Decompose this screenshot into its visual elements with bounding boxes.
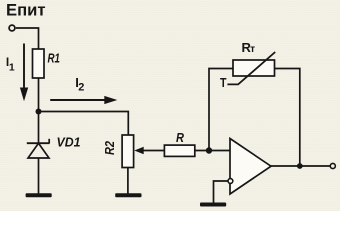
svg-text:т: т: [250, 44, 255, 55]
node A junction: [36, 109, 42, 115]
resistor R1: [33, 49, 45, 78]
terminal Епит input: [9, 25, 15, 31]
resistor R: [164, 145, 194, 156]
wire R1 bottom to node A and down to VD1: [38, 78, 40, 143]
wiper arrow into R2: [134, 147, 165, 154]
svg-text:2: 2: [78, 82, 84, 94]
node C junction on output: [297, 163, 303, 169]
svg-text:T: T: [220, 76, 227, 90]
label I2: [75, 75, 84, 94]
thermistor Rт: [227, 52, 275, 84]
wire R to op-amp input: [195, 150, 230, 152]
wire VD1 to ground: [38, 158, 40, 194]
wire op-amp output: [271, 165, 331, 167]
label I1: [6, 55, 15, 74]
current arrow I2: [50, 96, 117, 104]
svg-text:R1: R1: [48, 51, 61, 66]
wire thermistor right to output node: [275, 69, 300, 167]
wire inverting input to ground: [214, 181, 228, 203]
svg-text:R: R: [176, 130, 185, 145]
ground at op-amp input: [200, 203, 226, 207]
svg-text:VD1: VD1: [57, 135, 81, 150]
output terminal: [330, 163, 335, 168]
current arrow I1: [20, 44, 28, 102]
wire terminal to R1 top: [16, 28, 39, 50]
svg-text:1: 1: [9, 62, 15, 74]
wire R2 bottom to ground: [127, 168, 129, 194]
svg-text:Епит: Епит: [6, 1, 46, 20]
wire node B up to thermistor left: [209, 69, 233, 151]
op-amp inverting input circle: [228, 179, 233, 184]
potentiometer R2: [122, 135, 134, 168]
ground under VD1: [26, 193, 52, 197]
wire node A to R2 top: [39, 112, 129, 136]
ground under R2: [115, 193, 141, 197]
zener diode VD1: [27, 139, 49, 158]
label Rт: [242, 40, 256, 55]
node B junction: [206, 147, 212, 153]
op-amp U1: [230, 139, 271, 195]
svg-text:R2: R2: [102, 140, 117, 155]
